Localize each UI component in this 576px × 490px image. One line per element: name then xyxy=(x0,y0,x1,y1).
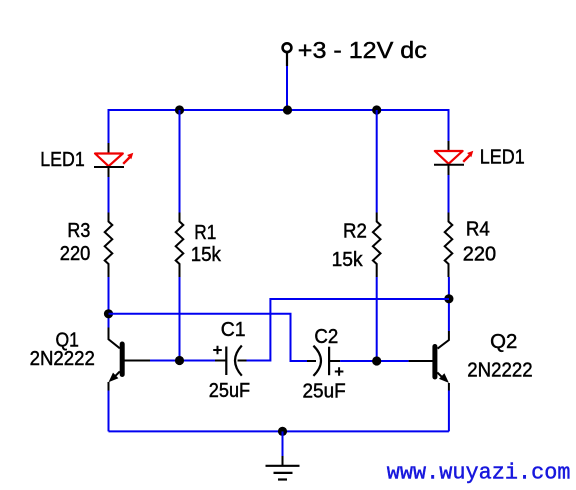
Q1 emitter arrow xyxy=(109,373,119,383)
LED1 left cathode bar xyxy=(94,166,124,168)
Q1 collector lead xyxy=(109,328,120,349)
LED1 left anode lead xyxy=(108,143,110,154)
svg-text:2N2222: 2N2222 xyxy=(467,360,532,382)
power terminal stem xyxy=(286,52,288,66)
svg-text:25uF: 25uF xyxy=(303,381,346,403)
node Q2 collector / C1 coupling xyxy=(444,294,453,303)
Q2 collector lead xyxy=(438,331,449,349)
svg-text:15k: 15k xyxy=(332,249,364,271)
Q1 base lead xyxy=(125,360,151,362)
capacitor C1 lead left xyxy=(215,360,226,362)
wire top bus xyxy=(109,109,449,111)
ground xyxy=(266,456,300,480)
wire R2 vertical bottom xyxy=(376,277,378,361)
capacitor C2 plus sign xyxy=(335,367,344,376)
LED1 right cathode lead xyxy=(448,165,450,175)
wire R3 to Q1 collector xyxy=(108,277,110,328)
svg-text:C1: C1 xyxy=(221,319,246,341)
Q1 emitter lead xyxy=(112,372,120,380)
svg-text:220: 220 xyxy=(463,244,496,266)
svg-text:15k: 15k xyxy=(191,244,222,266)
wire left LED to R3 xyxy=(108,177,110,213)
wire C1 to Q2 collector coupling xyxy=(247,299,450,361)
node R2 bottom / Q2 base xyxy=(372,356,381,365)
svg-text:Q2: Q2 xyxy=(490,331,517,353)
node Q1 collector / C2 coupling xyxy=(104,309,113,318)
wire Q1 collector to C2 coupling xyxy=(109,314,308,361)
capacitor C2 flat plate xyxy=(328,347,330,376)
svg-text:www.wuyazi.com: www.wuyazi.com xyxy=(387,461,571,486)
svg-text:C2: C2 xyxy=(314,326,338,348)
LED1 right anode lead xyxy=(448,141,450,151)
svg-text:R2: R2 xyxy=(343,220,367,242)
wire bottom bus xyxy=(109,430,449,432)
wire right vertical top xyxy=(448,109,450,141)
resistor R2 xyxy=(373,213,381,278)
Q1 emitter lead lower xyxy=(108,382,110,391)
resistor R1 xyxy=(176,213,184,278)
wire R1 vertical top xyxy=(179,110,181,213)
capacitor C2 curved plate xyxy=(313,346,321,376)
wire ground stem xyxy=(282,431,284,456)
resistor R4 xyxy=(445,213,453,278)
capacitor C1 lead right xyxy=(238,360,247,362)
wire Q1 emitter to bottom bus xyxy=(108,391,110,432)
node R1 top xyxy=(175,105,184,114)
LED1 right arrow xyxy=(463,155,469,161)
svg-text:25uF: 25uF xyxy=(209,380,250,402)
Q2 emitter lead xyxy=(437,373,445,381)
resistor R3 xyxy=(105,213,113,278)
svg-text:220: 220 xyxy=(60,243,91,265)
wire power drop xyxy=(286,66,288,110)
power terminal circle xyxy=(283,43,292,52)
LED1 left triangle xyxy=(95,154,123,167)
wire left vertical top xyxy=(108,109,110,143)
wire R4 to Q2 collector xyxy=(448,277,450,331)
Q2 bar xyxy=(432,347,437,378)
node power junction xyxy=(283,105,292,114)
svg-text:R3: R3 xyxy=(67,220,90,242)
svg-text:LED1: LED1 xyxy=(40,149,84,171)
capacitor C1 plus sign xyxy=(213,346,222,355)
LED1 left cathode lead xyxy=(108,167,110,177)
node R1 bottom / Q1 base xyxy=(175,356,184,365)
node R2 top xyxy=(372,105,381,114)
wire Q1 base to C1 xyxy=(150,360,215,362)
Q1 bar xyxy=(120,344,125,375)
wire Q2 emitter to bottom bus xyxy=(448,391,450,432)
wire R1 vertical bottom xyxy=(179,277,181,361)
svg-text:R4: R4 xyxy=(466,218,490,240)
svg-text:LED1: LED1 xyxy=(480,147,525,169)
capacitor C2 lead left xyxy=(307,360,316,362)
Q2 emitter arrow xyxy=(439,373,449,383)
svg-text:2N2222: 2N2222 xyxy=(30,348,95,370)
LED1 right triangle xyxy=(435,151,463,164)
svg-text:R1: R1 xyxy=(194,222,216,244)
capacitor C2 lead right xyxy=(329,360,340,362)
capacitor C1 curved plate xyxy=(235,346,242,376)
node ground junction xyxy=(278,427,287,436)
LED1 left arrow xyxy=(123,157,129,163)
wire R2 vertical top xyxy=(376,110,378,213)
wire right LED to R4 xyxy=(448,175,450,213)
svg-text:+3 - 12V dc: +3 - 12V dc xyxy=(298,37,427,63)
transistor Q2 xyxy=(409,331,449,391)
Q2 emitter lead lower xyxy=(448,383,450,391)
wire C2 to Q2 base xyxy=(340,360,409,362)
LED1 right cathode bar xyxy=(434,164,464,166)
Q2 base lead xyxy=(409,360,433,362)
transistor Q1 xyxy=(109,328,151,391)
capacitor C1 flat plate xyxy=(225,347,227,376)
